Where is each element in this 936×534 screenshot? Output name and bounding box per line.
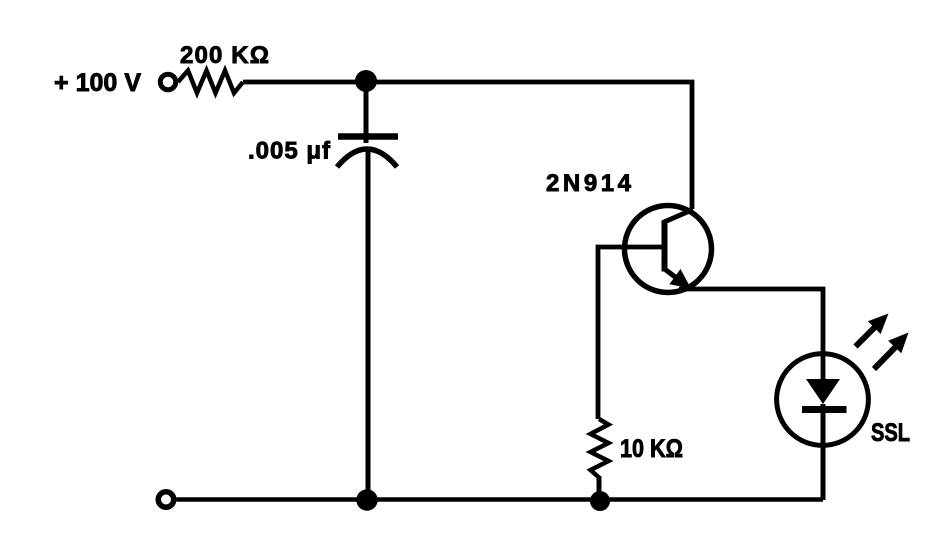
svg-text:10 KΩ: 10 KΩ [620,435,683,463]
svg-text:+ 100 V: + 100 V [54,69,141,97]
svg-text:SSL: SSL [871,419,910,447]
svg-text:2N914: 2N914 [546,170,632,197]
svg-text:200 KΩ: 200 KΩ [180,42,269,69]
svg-text:.005 μf: .005 μf [248,138,331,165]
